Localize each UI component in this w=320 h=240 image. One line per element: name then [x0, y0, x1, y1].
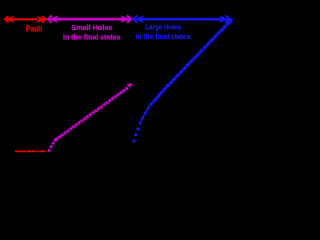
- svg-text:Large Holes: Large Holes: [145, 22, 181, 31]
- blue solid rising line: [154, 20, 232, 102]
- blue line arrowhead: [226, 18, 234, 25]
- svg-text:in the final states: in the final states: [136, 34, 191, 41]
- svg-text:in the final states: in the final states: [63, 35, 121, 42]
- magenta rising dotted curve: [56, 88, 129, 140]
- blue double arrow (Large Holes region): [133, 15, 229, 23]
- red double arrow (Pauli region): [5, 16, 46, 23]
- magenta double arrow (Small Holes region): [48, 15, 131, 23]
- magenta curve start dots: [48, 139, 57, 152]
- svg-text:Small Holes: Small Holes: [71, 23, 112, 32]
- svg-text:Pauli: Pauli: [26, 25, 42, 34]
- red flat dashed line (Pauli-blocked, zero response): [15, 150, 46, 152]
- blue curve dots (lower part): [132, 93, 160, 142]
- blue curve chain (dots merging): [140, 102, 154, 123]
- magenta curve arrowhead: [127, 83, 133, 88]
